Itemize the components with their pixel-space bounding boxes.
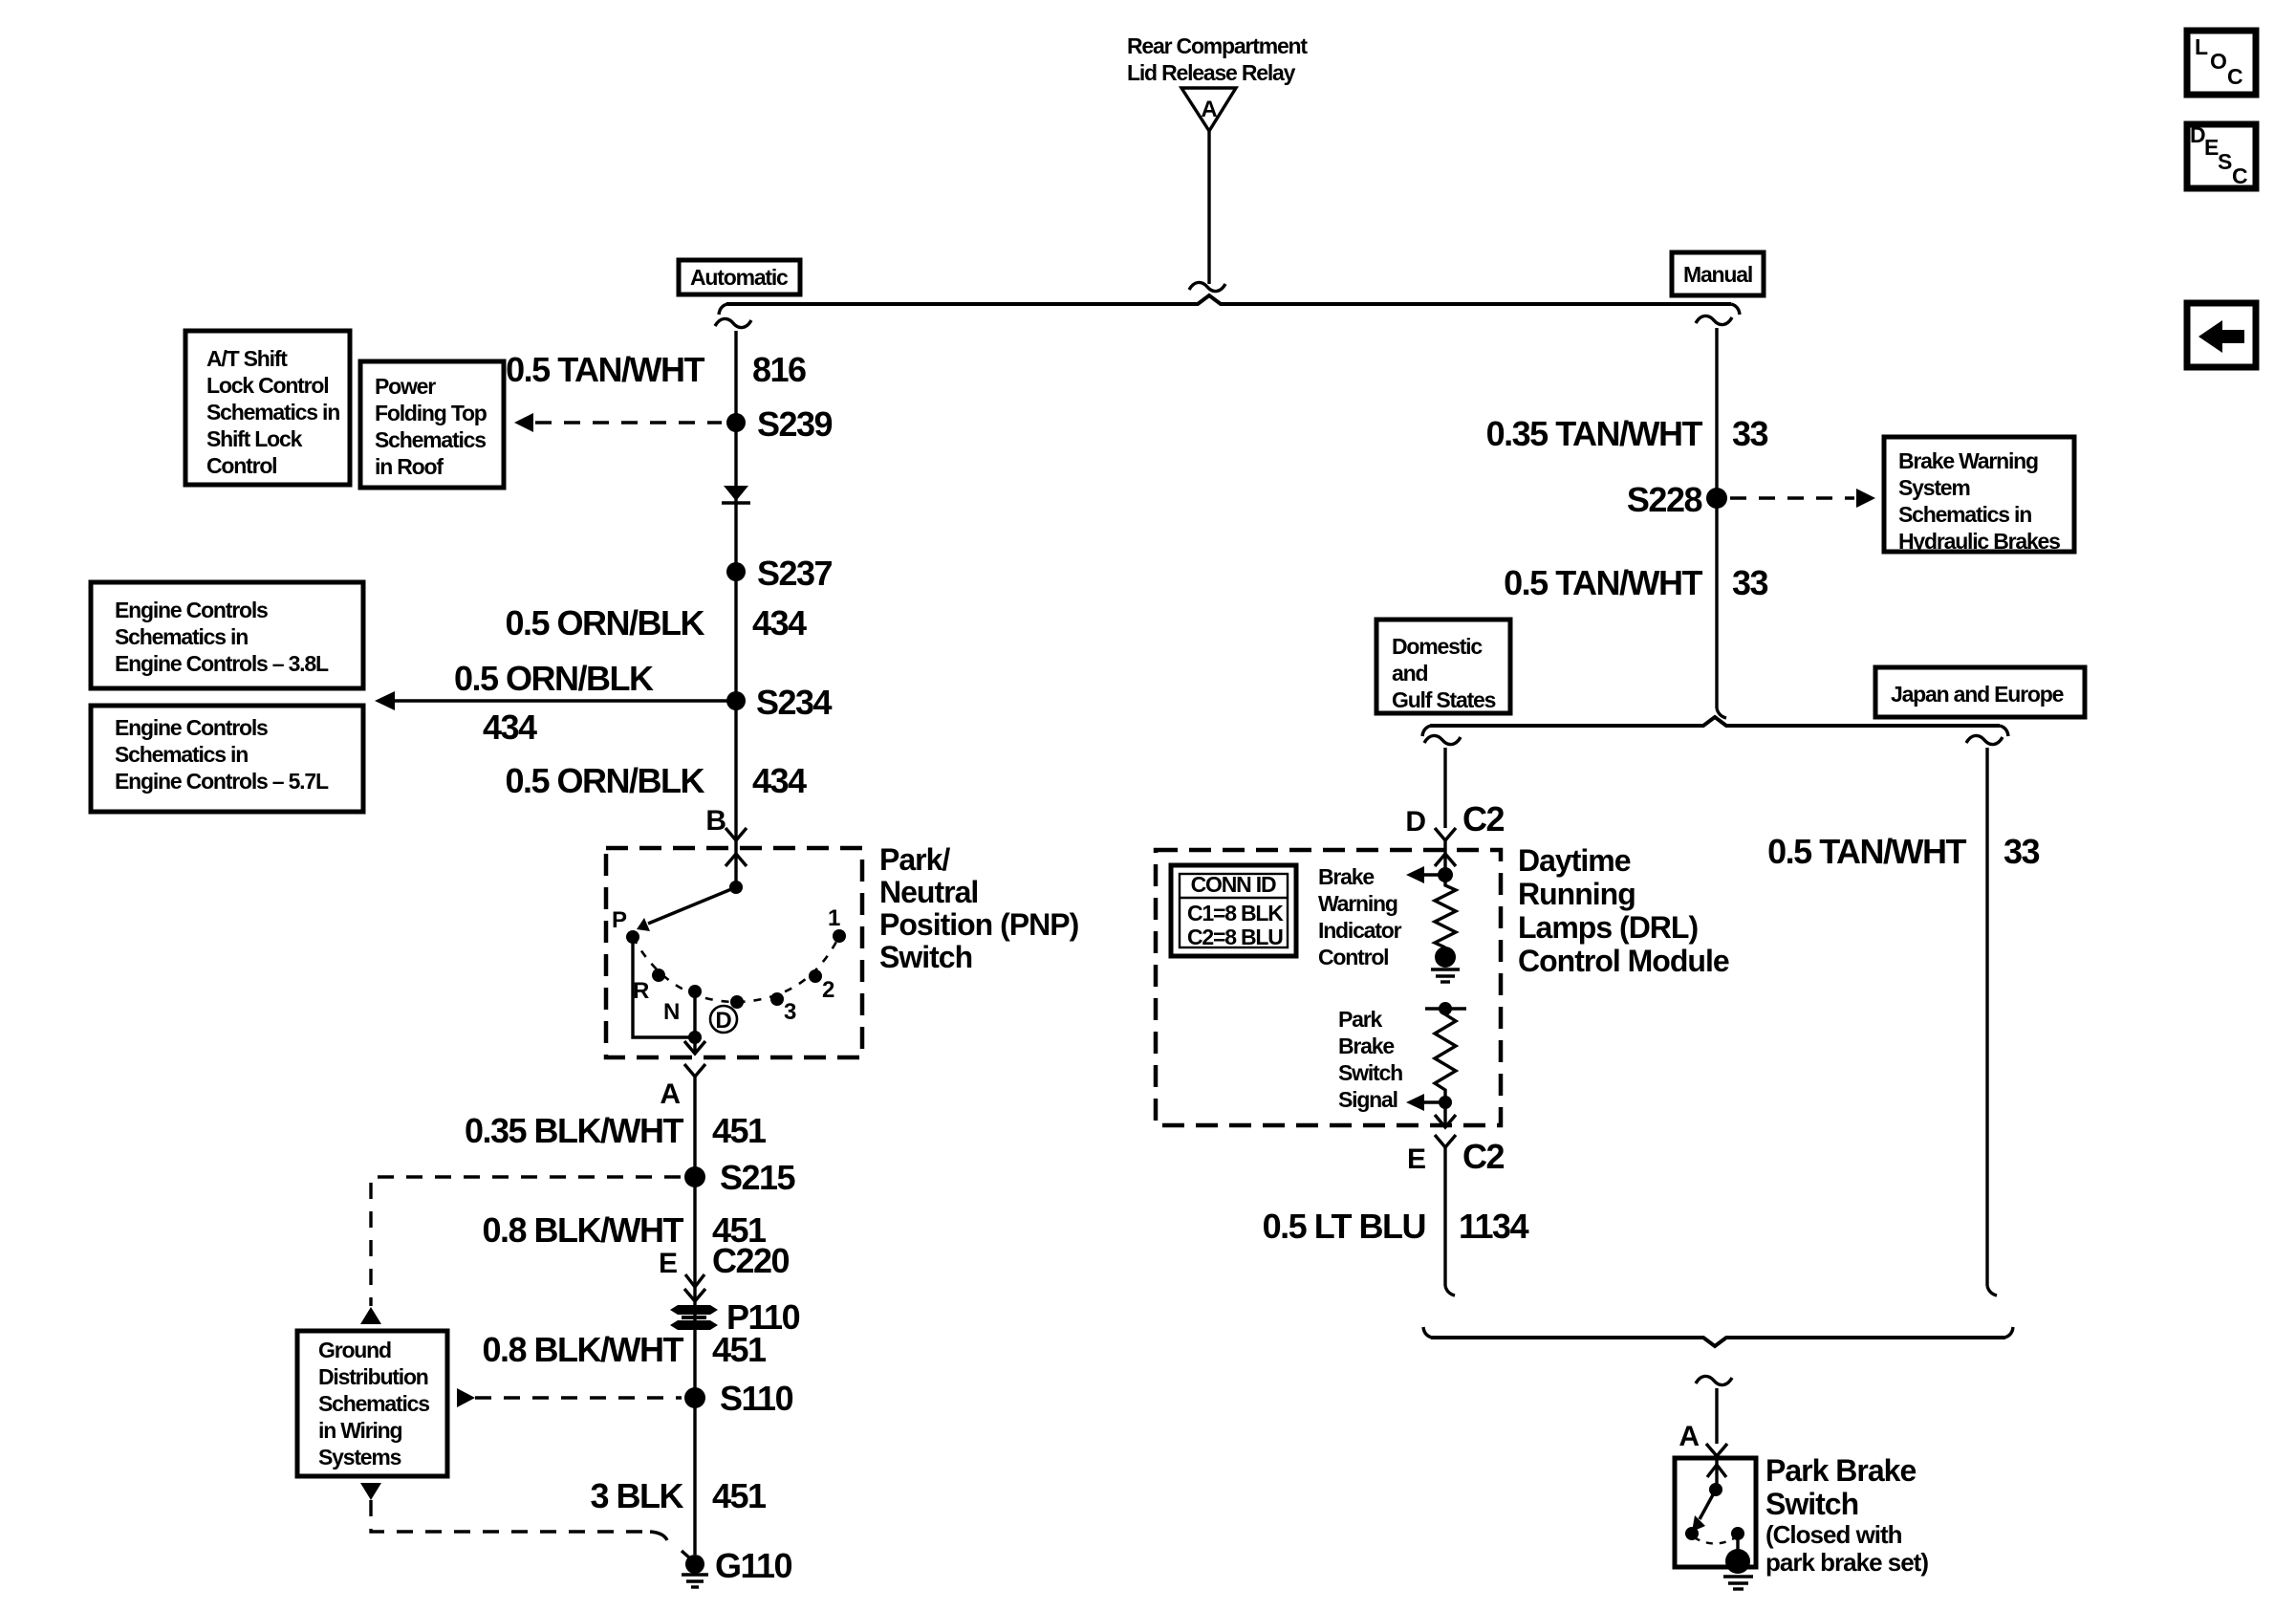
svg-text:0.35 BLK/WHT: 0.35 BLK/WHT — [465, 1111, 684, 1150]
svg-text:D: D — [2190, 122, 2205, 147]
label 0.5 LT BLU 1134 — [1263, 1207, 1529, 1246]
rear compartment lid release relay label — [1127, 33, 1308, 85]
wire 816 segment — [734, 331, 737, 848]
break squiggle above bus center — [1189, 282, 1225, 291]
svg-text:816: 816 — [752, 350, 806, 389]
wire from relay to bus — [1207, 131, 1210, 284]
svg-text:3 BLK: 3 BLK — [590, 1476, 683, 1515]
svg-text:Engine Controls: Engine Controls — [115, 715, 268, 740]
svg-text:E: E — [1407, 1143, 1426, 1175]
break squiggle top — [1966, 735, 2003, 744]
P contact wire to N line — [633, 937, 695, 1037]
wire to D connector — [1443, 748, 1446, 828]
arrow to power folding top box — [514, 413, 533, 432]
svg-text:Schematics in: Schematics in — [115, 742, 248, 767]
svg-text:0.8 BLK/WHT: 0.8 BLK/WHT — [482, 1210, 683, 1250]
svg-text:O: O — [2210, 49, 2226, 74]
svg-text:Engine Controls – 5.7L: Engine Controls – 5.7L — [115, 769, 329, 794]
svg-text:C220: C220 — [712, 1241, 790, 1280]
svg-text:Position (PNP): Position (PNP) — [879, 907, 1079, 942]
japan wire end hook — [1987, 1286, 1997, 1295]
svg-text:and: and — [1392, 661, 1427, 686]
contact N — [688, 985, 702, 998]
svg-text:33: 33 — [1732, 414, 1768, 453]
svg-text:Park/: Park/ — [879, 842, 950, 877]
svg-text:Running: Running — [1518, 877, 1635, 911]
svg-text:Daytime: Daytime — [1518, 843, 1631, 878]
svg-text:S237: S237 — [757, 554, 833, 593]
svg-text:D: D — [1405, 806, 1426, 838]
label 0.8 BLK/WHT 451 upper — [482, 1210, 767, 1250]
svg-text:434: 434 — [483, 708, 537, 747]
contact R — [652, 969, 665, 982]
svg-text:S228: S228 — [1627, 480, 1702, 519]
svg-text:451: 451 — [712, 1330, 767, 1369]
svg-text:A/T Shift: A/T Shift — [206, 346, 288, 371]
svg-text:(Closed with: (Closed with — [1765, 1520, 1902, 1549]
svg-text:B: B — [705, 805, 726, 837]
bus line 2 — [1430, 717, 2000, 726]
dashed to brake warning box — [1730, 496, 1854, 499]
relay triangle A — [1181, 88, 1236, 131]
connector E C2 — [1407, 1135, 1505, 1176]
svg-text:in Roof: in Roof — [375, 454, 444, 479]
svg-text:0.5 TAN/WHT: 0.5 TAN/WHT — [1504, 563, 1702, 602]
splice S234 — [726, 683, 833, 722]
break squiggle top of DRL wire — [1424, 735, 1461, 744]
break squiggle below bus3 — [1696, 1376, 1732, 1384]
park brake switch signal label — [1338, 1007, 1402, 1112]
svg-text:451: 451 — [712, 1476, 767, 1515]
svg-text:S234: S234 — [756, 683, 833, 722]
label 0.35 BLK/WHT 451 — [465, 1111, 767, 1150]
svg-text:0.8 BLK/WHT: 0.8 BLK/WHT — [482, 1330, 683, 1369]
svg-text:S239: S239 — [757, 404, 833, 444]
svg-text:Gulf States: Gulf States — [1392, 687, 1496, 712]
label 0.35 TAN/WHT 33 — [1486, 414, 1768, 453]
diode symbol — [722, 486, 750, 503]
switch arm arrow to P — [637, 887, 736, 931]
Manual label box — [1672, 252, 1764, 295]
svg-text:3: 3 — [784, 999, 796, 1025]
contact D circled — [730, 995, 744, 1009]
bus left end hook — [719, 304, 727, 315]
wire 33 segment — [1715, 328, 1718, 708]
svg-text:G110: G110 — [715, 1546, 792, 1585]
connector E C220 — [659, 1241, 790, 1301]
manual wire end hook — [1717, 708, 1726, 718]
DRL title — [1518, 843, 1729, 978]
hook at end of dashed — [650, 1532, 667, 1540]
svg-text:Manual: Manual — [1683, 262, 1752, 287]
label 3 BLK 451 — [590, 1476, 767, 1515]
svg-text:D: D — [715, 1008, 731, 1034]
Engine Controls 5.7L box — [91, 706, 363, 812]
svg-text:Power: Power — [375, 374, 436, 399]
svg-text:E: E — [659, 1248, 678, 1279]
brake warning indicator control label — [1318, 864, 1402, 969]
svg-text:Ground: Ground — [318, 1338, 391, 1362]
grommet P110 — [670, 1297, 800, 1337]
svg-text:Control Module: Control Module — [1518, 944, 1729, 978]
left contact dot — [1685, 1527, 1699, 1540]
svg-text:R: R — [633, 978, 649, 1004]
connector D C2 — [1405, 799, 1504, 840]
entry arrow up — [1435, 854, 1456, 866]
svg-text:0.35 TAN/WHT: 0.35 TAN/WHT — [1486, 414, 1703, 453]
junction dot and left arrow — [1406, 866, 1453, 883]
contact 2 — [809, 969, 822, 983]
entry arrow into switch — [726, 848, 747, 887]
svg-text:Systems: Systems — [318, 1445, 401, 1469]
splice S215 — [684, 1158, 796, 1197]
Brake Warning System box — [1884, 437, 2074, 554]
main bus line (top) — [726, 295, 1731, 304]
svg-text:Indicator: Indicator — [1318, 918, 1402, 943]
svg-text:Neutral: Neutral — [879, 875, 978, 909]
svg-text:451: 451 — [712, 1111, 767, 1150]
svg-text:0.5 ORN/BLK: 0.5 ORN/BLK — [505, 761, 704, 800]
svg-text:1134: 1134 — [1459, 1207, 1529, 1246]
svg-text:Japan and Europe: Japan and Europe — [1891, 682, 2064, 707]
svg-text:L: L — [2195, 34, 2208, 59]
A/T Shift Lock Control box — [185, 331, 350, 485]
svg-text:Switch: Switch — [1765, 1487, 1858, 1521]
Engine Controls 3.8L box — [91, 582, 363, 688]
svg-text:Brake: Brake — [1318, 864, 1374, 889]
svg-text:Shift Lock: Shift Lock — [206, 426, 303, 451]
bus right end hook — [1731, 304, 1740, 315]
DRL dashed box — [1156, 850, 1501, 1125]
bus line 3 — [1431, 1338, 2005, 1346]
svg-text:S215: S215 — [720, 1158, 796, 1197]
svg-text:A: A — [1679, 1421, 1700, 1452]
svg-text:in Wiring: in Wiring — [318, 1418, 402, 1443]
svg-text:Engine Controls: Engine Controls — [115, 598, 268, 622]
svg-text:Switch: Switch — [879, 940, 972, 974]
svg-text:0.5 TAN/WHT: 0.5 TAN/WHT — [1767, 832, 1966, 871]
ground G110 — [682, 1546, 792, 1587]
female connector at B — [726, 828, 747, 840]
switch blade with arrow — [1692, 1490, 1716, 1532]
switch pivot — [729, 881, 743, 894]
resistor 1 — [1435, 875, 1456, 947]
wire down right side — [1985, 748, 1988, 1286]
svg-text:Schematics in: Schematics in — [115, 624, 248, 649]
svg-text:0.5 TAN/WHT: 0.5 TAN/WHT — [506, 350, 704, 389]
splice S110 — [684, 1379, 793, 1418]
svg-text:Schematics in: Schematics in — [1898, 502, 2031, 527]
svg-text:park brake set): park brake set) — [1765, 1548, 1928, 1577]
svg-text:Brake: Brake — [1338, 1034, 1394, 1058]
resistor 2 with top bar — [1425, 1002, 1466, 1102]
wire to park brake switch — [1715, 1388, 1718, 1444]
contact 1 — [833, 929, 846, 943]
ground bars — [1723, 1577, 1753, 1589]
svg-text:E: E — [2204, 135, 2219, 160]
svg-text:A: A — [660, 1078, 681, 1110]
junction dot and left arrow 2 — [1406, 1094, 1452, 1111]
dashed reference line from S239 — [535, 421, 722, 424]
DESC box — [2187, 122, 2256, 188]
svg-text:S: S — [2218, 149, 2232, 174]
svg-text:Control: Control — [206, 453, 276, 478]
label 0.5 ORN/BLK 434 — [505, 603, 807, 642]
svg-text:0.5 ORN/BLK: 0.5 ORN/BLK — [454, 659, 654, 698]
svg-text:Park Brake: Park Brake — [1765, 1453, 1916, 1488]
entry wire and up arrow — [1707, 1456, 1726, 1490]
PNP title — [879, 842, 1079, 974]
svg-text:Park: Park — [1338, 1007, 1382, 1032]
exit wire with down arrow — [1435, 1102, 1456, 1127]
contact 3 — [770, 992, 784, 1006]
svg-text:C1=8 BLK: C1=8 BLK — [1187, 901, 1284, 925]
svg-text:0.5 LT BLU: 0.5 LT BLU — [1263, 1207, 1425, 1246]
svg-text:Brake Warning: Brake Warning — [1898, 448, 2038, 473]
wire into DRL box — [1443, 840, 1446, 875]
svg-text:C: C — [2227, 64, 2242, 89]
svg-text:Folding Top: Folding Top — [375, 401, 487, 425]
svg-text:0.5 ORN/BLK: 0.5 ORN/BLK — [505, 603, 704, 642]
svg-text:Schematics in: Schematics in — [206, 400, 339, 425]
svg-text:C: C — [2232, 163, 2247, 188]
svg-text:Automatic: Automatic — [690, 265, 789, 290]
Power Folding Top box — [360, 361, 504, 488]
dashed contact arc — [633, 936, 839, 1002]
Domestic and Gulf States box — [1376, 620, 1510, 713]
svg-text:33: 33 — [2004, 832, 2040, 871]
svg-text:System: System — [1898, 475, 1970, 500]
svg-text:C2: C2 — [1462, 1137, 1504, 1176]
ground inside module — [1431, 947, 1460, 982]
contact P — [626, 930, 639, 944]
svg-text:1: 1 — [828, 905, 840, 931]
label 0.5 TAN/WHT 33 right — [1767, 832, 2039, 871]
switch box — [1675, 1458, 1756, 1567]
dashed contact arc — [1694, 1537, 1736, 1544]
svg-text:Lid Release Relay: Lid Release Relay — [1127, 60, 1296, 85]
female connector at A — [684, 1064, 705, 1077]
svg-text:2: 2 — [822, 977, 834, 1003]
arrow pointing right at box — [457, 1388, 475, 1407]
svg-text:N: N — [663, 999, 680, 1025]
park brake switch title — [1765, 1453, 1928, 1577]
break squiggle top of manual wire — [1696, 316, 1732, 324]
svg-text:Signal: Signal — [1338, 1087, 1397, 1112]
svg-text:Warning: Warning — [1318, 891, 1397, 916]
svg-text:Engine Controls – 3.8L: Engine Controls – 3.8L — [115, 651, 329, 676]
svg-text:A: A — [1201, 97, 1217, 122]
arrow down below box — [360, 1483, 381, 1500]
Ground Distribution box — [297, 1331, 447, 1476]
CONN ID table — [1171, 865, 1296, 956]
splice S239 — [726, 404, 833, 444]
svg-text:Schematics: Schematics — [375, 427, 486, 452]
svg-text:434: 434 — [752, 761, 807, 800]
svg-text:C2: C2 — [1462, 799, 1504, 838]
svg-text:33: 33 — [1732, 563, 1768, 602]
wire A to G110 — [693, 1077, 696, 1555]
label 0.5 ORN/BLK 434 lower — [505, 761, 807, 800]
svg-text:Rear Compartment: Rear Compartment — [1127, 33, 1308, 58]
Japan and Europe box — [1875, 667, 2085, 717]
break squiggle top of automatic wire — [715, 318, 751, 327]
PNP dashed box — [606, 848, 862, 1057]
arrow up at box top — [360, 1307, 381, 1324]
Automatic label box — [679, 260, 800, 294]
svg-text:C2=8 BLU: C2=8 BLU — [1187, 925, 1283, 949]
svg-text:Hydraulic Brakes: Hydraulic Brakes — [1898, 529, 2060, 554]
DRL wire end hook — [1445, 1286, 1455, 1295]
arrow wire from S234 to engine controls boxes — [375, 659, 736, 747]
arrow into brake warning box — [1856, 489, 1875, 508]
svg-text:Schematics: Schematics — [318, 1391, 429, 1416]
label 0.5 TAN/WHT 33 — [1504, 563, 1767, 602]
bus3 right hook — [2004, 1327, 2013, 1338]
dashed from ground box to S110 — [475, 1396, 682, 1399]
svg-text:Distribution: Distribution — [318, 1364, 428, 1389]
switch pivot dot — [1709, 1483, 1722, 1496]
svg-text:S110: S110 — [720, 1379, 793, 1418]
svg-text:CONN ID: CONN ID — [1191, 872, 1276, 897]
wire to bus3 — [1443, 1147, 1446, 1286]
splice S237 — [726, 554, 833, 593]
female connector at A — [1706, 1444, 1727, 1456]
svg-text:P: P — [612, 907, 627, 933]
svg-text:Domestic: Domestic — [1392, 634, 1483, 659]
right contact — [1731, 1527, 1744, 1553]
label 0.8 BLK/WHT 451 lower — [482, 1330, 767, 1369]
label 0.5 TAN/WHT 816 — [506, 350, 806, 389]
bus2 right hook — [2000, 726, 2008, 736]
svg-text:Lamps (DRL): Lamps (DRL) — [1518, 910, 1698, 945]
dashed from S215 to ground distribution box — [371, 1177, 681, 1306]
back arrow box — [2187, 303, 2256, 367]
svg-text:Control: Control — [1318, 945, 1388, 969]
N exit wire with arrow — [684, 991, 705, 1054]
bus2 left hook — [1422, 726, 1431, 736]
svg-text:Switch: Switch — [1338, 1060, 1402, 1085]
LOC box — [2187, 31, 2256, 95]
svg-text:434: 434 — [752, 603, 807, 642]
bus3 left hook — [1423, 1327, 1432, 1338]
svg-text:Lock Control: Lock Control — [206, 373, 328, 398]
splice S228 — [1627, 480, 1727, 519]
dashed down then right to G110 — [371, 1500, 642, 1532]
ground big dot — [1725, 1549, 1750, 1574]
